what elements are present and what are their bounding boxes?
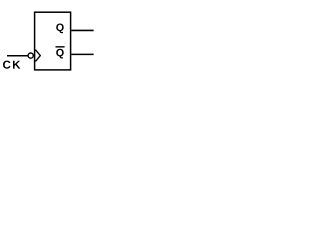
- inversion bubble on CK input: [28, 53, 33, 58]
- edge-trigger triangle CK: [35, 50, 40, 62]
- wire Q output: [71, 29, 93, 31]
- label Q-bar letter: [56, 49, 64, 59]
- label CK letter K: [13, 61, 20, 69]
- flip-flop body U1: [35, 12, 71, 70]
- label Q: [56, 24, 64, 34]
- wire CK input: [7, 55, 28, 57]
- overline of Q-bar: [56, 46, 65, 48]
- label CK letter C: [3, 61, 10, 69]
- wire Q-bar output: [71, 53, 93, 55]
